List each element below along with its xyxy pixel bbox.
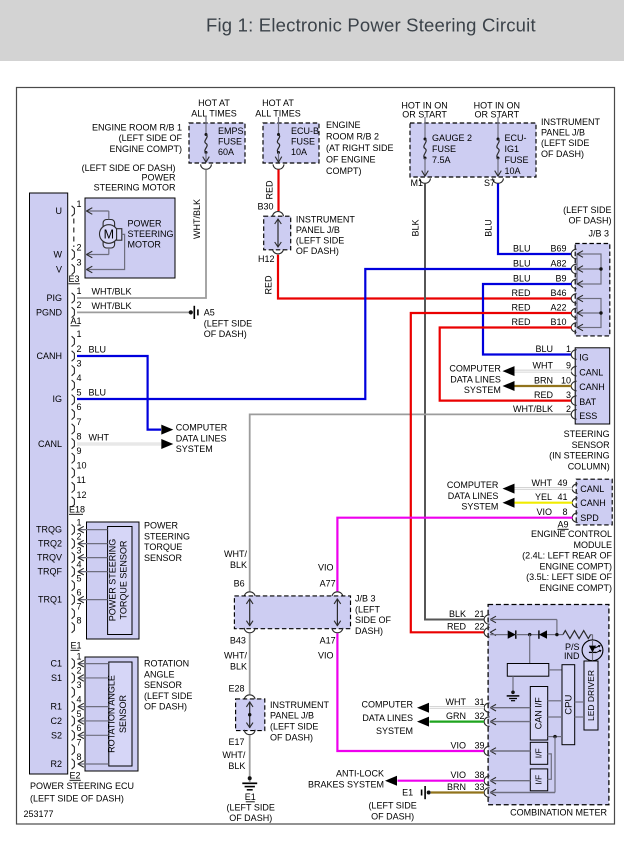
svg-text:BAT: BAT: [579, 397, 596, 407]
svg-text:FUSE: FUSE: [505, 155, 529, 165]
svg-text:BLK: BLK: [449, 609, 466, 619]
wire WHT/BLK B43 to E28: [249, 633, 251, 694]
svg-text:WHT: WHT: [89, 433, 110, 443]
svg-text:COMPT): COMPT): [326, 166, 362, 176]
rotation sensor wires to ECU: [78, 663, 109, 665]
svg-text:OF DASH): OF DASH): [229, 813, 272, 823]
fuse GAUGE 2 7.5A: [424, 117, 426, 139]
svg-text:CANH: CANH: [36, 351, 62, 361]
engine control module block: [576, 479, 612, 525]
svg-text:TRQV: TRQV: [37, 553, 62, 563]
P/S IND LED indicator: [582, 640, 603, 661]
svg-text:E2: E2: [70, 771, 81, 781]
svg-text:9: 9: [77, 446, 82, 456]
svg-text:I/F: I/F: [534, 748, 544, 758]
svg-text:SENSOR: SENSOR: [144, 553, 183, 563]
svg-text:CANL: CANL: [580, 484, 604, 494]
svg-text:B9: B9: [555, 273, 566, 283]
svg-text:RED: RED: [511, 317, 531, 327]
svg-text:2: 2: [77, 531, 82, 541]
wire WHT/BLK from EMPS fuse to ECU PIG pin 1: [77, 170, 206, 299]
svg-text:VIO: VIO: [536, 507, 552, 517]
svg-text:10: 10: [77, 461, 87, 471]
svg-text:R2: R2: [50, 759, 62, 769]
torque sensor wires to ECU: [78, 529, 108, 531]
steering sensor block: [575, 348, 610, 424]
wire WHT CANL from ECU to computer data lines arrow: [77, 443, 161, 446]
svg-text:S2: S2: [51, 730, 62, 740]
computer data lines system arrows (left): [161, 425, 173, 435]
svg-text:OF DASH): OF DASH): [568, 216, 611, 226]
svg-text:E18: E18: [69, 505, 85, 515]
svg-text:E1: E1: [71, 641, 82, 651]
svg-text:IG: IG: [52, 394, 62, 404]
svg-text:RED: RED: [265, 180, 275, 200]
J/B3 internal bus bar 2: [577, 299, 601, 328]
rotation angle sensor block: [85, 657, 138, 771]
svg-text:MODULE: MODULE: [573, 540, 612, 550]
meter internal wire pin38: [490, 780, 530, 782]
svg-text:ENGINE COMPT): ENGINE COMPT): [109, 144, 182, 154]
wire VIO from ECM SPD pin 8 to J/B3 A77: [337, 518, 572, 592]
svg-text:(LEFT SIDE: (LEFT SIDE: [368, 800, 416, 810]
svg-text:POWER STEERING ECU: POWER STEERING ECU: [30, 781, 134, 791]
svg-text:GRN: GRN: [446, 711, 466, 721]
fuse ECU-IG1 10A: [497, 117, 499, 139]
svg-text:49: 49: [557, 478, 567, 488]
svg-text:BRN: BRN: [447, 782, 466, 792]
svg-text:60A: 60A: [218, 147, 234, 157]
svg-text:10A: 10A: [505, 166, 521, 176]
svg-text:10A: 10A: [291, 147, 307, 157]
svg-text:INSTRUMENT: INSTRUMENT: [270, 700, 329, 710]
svg-text:(LEFT: (LEFT: [355, 604, 381, 614]
svg-text:TORQUE: TORQUE: [144, 542, 182, 552]
svg-text:ENGINE COMPT): ENGINE COMPT): [539, 561, 612, 571]
svg-text:EMPS: EMPS: [218, 126, 244, 136]
wire WHT ECM CANL pin 49 to computer data lines: [515, 487, 573, 490]
svg-text:WHT/: WHT/: [224, 651, 247, 661]
svg-text:ROTATION ANGLE: ROTATION ANGLE: [107, 675, 117, 753]
svg-text:11: 11: [77, 475, 86, 485]
svg-text:OF DASH): OF DASH): [270, 732, 313, 742]
svg-text:2: 2: [77, 242, 82, 252]
svg-text:7.5A: 7.5A: [432, 155, 451, 165]
power steering motor block: [85, 198, 175, 278]
J/B3 internal bus bar 1: [577, 254, 601, 284]
svg-text:TRQG: TRQG: [36, 525, 62, 535]
svg-text:C1: C1: [50, 659, 62, 669]
svg-text:POWER: POWER: [144, 521, 179, 531]
svg-text:39: 39: [474, 740, 484, 750]
svg-text:(2.4L: LEFT REAR OF: (2.4L: LEFT REAR OF: [522, 551, 612, 561]
svg-text:BLU: BLU: [535, 344, 553, 354]
svg-text:12: 12: [77, 490, 87, 500]
wire WHT/BLK ESS net: steering sensor pin 2 to B6: [250, 414, 572, 591]
svg-text:A17: A17: [320, 636, 336, 646]
wire VIO meter pin38 from anti-lock brakes system: [398, 780, 485, 782]
svg-text:A5: A5: [204, 308, 215, 318]
svg-text:BLK: BLK: [411, 219, 421, 236]
svg-text:(LEFT SIDE OF: (LEFT SIDE OF: [119, 133, 183, 143]
wire BLU from J/B3 B9 to steering sensor IG pin 1: [483, 284, 572, 355]
svg-text:PIG: PIG: [46, 293, 62, 303]
CPU box: [562, 665, 575, 745]
svg-text:5: 5: [77, 709, 82, 719]
svg-text:BLU: BLU: [484, 219, 494, 237]
svg-text:STEERING MOTOR: STEERING MOTOR: [94, 183, 176, 193]
svg-text:1: 1: [566, 344, 571, 354]
combination meter block: [488, 605, 609, 805]
svg-text:I/F: I/F: [534, 775, 544, 785]
svg-text:B69: B69: [550, 243, 566, 253]
svg-text:(LEFT SIDE: (LEFT SIDE: [270, 722, 318, 732]
svg-text:ANTI-LOCK: ANTI-LOCK: [336, 769, 384, 779]
computer data lines system arrows (ECM): [503, 484, 515, 494]
resistor to P/S IND: [563, 631, 591, 639]
svg-text:FUSE: FUSE: [218, 137, 242, 147]
svg-text:1: 1: [77, 286, 82, 296]
svg-text:SYSTEM: SYSTEM: [176, 444, 213, 454]
svg-text:ANGLE: ANGLE: [144, 669, 175, 679]
svg-text:BLU: BLU: [513, 243, 531, 253]
fuse box engine room R/B 1 (EMPS): [189, 123, 245, 163]
diode D1: [508, 630, 516, 638]
svg-text:ENGINE: ENGINE: [326, 120, 361, 130]
svg-text:TORQUE SENSOR: TORQUE SENSOR: [119, 540, 129, 619]
fuse box instrument panel J/B: [410, 123, 536, 177]
computer data lines system arrows (steering sensor): [503, 366, 515, 376]
svg-text:POWER: POWER: [128, 219, 163, 229]
svg-text:WHT/: WHT/: [224, 549, 247, 559]
meter internal ground: [512, 676, 514, 691]
wire BLU IG from ECU pin 5 to J/B3 A82: [77, 269, 572, 399]
wire BLU CANH from ECU to computer data lines arrow: [77, 356, 161, 430]
svg-text:B43: B43: [230, 636, 246, 646]
svg-text:DASH): DASH): [355, 626, 383, 636]
svg-text:MOTOR: MOTOR: [128, 240, 162, 250]
CAN I/F bottom wire with junction to pin33: [548, 736, 562, 738]
wire GRN meter pin32 to computer data lines: [430, 720, 485, 722]
svg-text:7: 7: [77, 601, 82, 611]
svg-text:SENSOR: SENSOR: [572, 440, 611, 450]
connector arc below EMPS fuse: [201, 164, 212, 169]
meter internal wire pin39: [490, 750, 530, 752]
svg-text:WHT: WHT: [532, 478, 553, 488]
title banner: [0, 0, 624, 61]
junction block J/B 3 lower (B6-B43, A77-A17): [244, 592, 255, 597]
svg-text:W: W: [54, 250, 63, 260]
svg-text:J/B 3: J/B 3: [588, 229, 609, 239]
meter internal wire pin32: [490, 721, 530, 723]
svg-text:7: 7: [77, 417, 82, 427]
svg-text:IG1: IG1: [505, 144, 520, 154]
svg-text:OR START: OR START: [474, 110, 519, 120]
svg-text:21: 21: [474, 609, 484, 619]
svg-text:WHT/BLK: WHT/BLK: [92, 287, 132, 297]
svg-text:253177: 253177: [24, 809, 54, 819]
svg-text:3: 3: [77, 257, 82, 267]
svg-text:E28: E28: [228, 684, 244, 694]
power steering torque sensor block: [87, 522, 140, 639]
svg-text:(LEFT SIDE OF DASH): (LEFT SIDE OF DASH): [82, 163, 176, 173]
svg-text:Fig 1: Electronic Power Steeri: Fig 1: Electronic Power Steering Circuit: [206, 15, 536, 36]
computer data lines system arrows (meter): [417, 703, 429, 713]
svg-text:A82: A82: [550, 258, 566, 268]
wire BRN CANH sensor pin 10 to computer data lines: [515, 385, 572, 387]
wire motor pin1 U: [86, 210, 109, 212]
chassis ground E1: [248, 776, 252, 780]
svg-text:ECU-B: ECU-B: [291, 126, 319, 136]
svg-text:E3: E3: [69, 274, 80, 284]
ECU torque-sensor connector pins 1-8 (TRQG,TRQ2,TRQV,TRQF,TRQ1): [72, 524, 75, 534]
svg-text:POWER STEERING: POWER STEERING: [108, 539, 118, 622]
svg-text:(3.5L: LEFT SIDE OF: (3.5L: LEFT SIDE OF: [526, 572, 612, 582]
regulator box: [529, 635, 531, 664]
svg-text:BLU: BLU: [89, 345, 107, 355]
svg-text:BLK: BLK: [230, 560, 247, 570]
wire RED from J/B3 A22 to combination meter pin 22: [411, 313, 572, 632]
svg-text:WHT/BLK: WHT/BLK: [192, 199, 202, 239]
svg-text:41: 41: [557, 492, 567, 502]
svg-text:COMPUTER: COMPUTER: [176, 423, 228, 433]
svg-text:STEERING: STEERING: [144, 531, 190, 541]
I/F box 2: [530, 769, 547, 791]
svg-text:STEERING: STEERING: [128, 229, 174, 239]
body ground E1 symbol at meter: [427, 791, 431, 795]
svg-text:DATA LINES: DATA LINES: [450, 374, 501, 384]
svg-text:COMPUTER: COMPUTER: [447, 480, 499, 490]
svg-text:CANH: CANH: [580, 498, 606, 508]
svg-text:OF ENGINE: OF ENGINE: [326, 155, 376, 165]
wire WHT CANL sensor pin 9 to computer data lines: [515, 370, 572, 373]
ECU rotation-sensor connector pins 1-8 (C1,S1,R1,C2,S2,R2): [72, 658, 75, 668]
svg-text:(AT RIGHT SIDE: (AT RIGHT SIDE: [326, 143, 394, 153]
svg-text:BRN: BRN: [534, 375, 553, 385]
svg-text:WHT: WHT: [446, 697, 467, 707]
LED DRIVER box: [584, 661, 598, 730]
svg-text:WHT/: WHT/: [222, 750, 245, 760]
svg-text:SENSOR: SENSOR: [118, 694, 128, 733]
svg-text:RED: RED: [534, 390, 554, 400]
svg-text:(LEFT SIDE: (LEFT SIDE: [541, 138, 589, 148]
svg-text:ROTATION: ROTATION: [144, 659, 189, 669]
svg-text:6: 6: [77, 723, 82, 733]
svg-text:B30: B30: [257, 202, 273, 212]
wire motor pin3 V: [86, 234, 125, 269]
svg-text:7: 7: [77, 737, 82, 747]
connector arc S7: [493, 178, 504, 183]
svg-text:4: 4: [77, 559, 82, 569]
svg-text:SPD: SPD: [580, 513, 599, 523]
svg-text:VIO: VIO: [450, 740, 466, 750]
wire RED from H12 to J/B3 B46: [278, 255, 572, 299]
svg-text:8: 8: [562, 507, 567, 517]
svg-text:DATA LINES: DATA LINES: [362, 713, 413, 723]
svg-text:33: 33: [474, 782, 484, 792]
svg-text:WHT: WHT: [533, 361, 554, 371]
svg-text:CANL: CANL: [38, 439, 62, 449]
svg-text:VIO: VIO: [318, 563, 334, 573]
svg-text:J/B 3: J/B 3: [355, 594, 376, 604]
dashed link E3 pin1-pin2: [73, 219, 75, 248]
svg-text:BRAKES SYSTEM: BRAKES SYSTEM: [308, 779, 384, 789]
svg-text:4: 4: [77, 694, 82, 704]
svg-text:U: U: [56, 206, 63, 216]
wire BLK from GAUGE 2 fuse M1 to combination meter pin 21: [425, 184, 484, 620]
svg-text:ENGINE ROOM R/B 1: ENGINE ROOM R/B 1: [92, 123, 182, 133]
svg-text:22: 22: [474, 622, 484, 632]
svg-text:SENSOR: SENSOR: [144, 680, 183, 690]
svg-text:B46: B46: [550, 288, 566, 298]
wire WHT meter pin31 to computer data lines: [430, 706, 485, 709]
svg-text:(LEFT SIDE: (LEFT SIDE: [204, 319, 252, 329]
svg-text:ROOM R/B 2: ROOM R/B 2: [326, 132, 379, 142]
svg-text:ESS: ESS: [579, 411, 597, 421]
svg-text:YEL: YEL: [535, 492, 552, 502]
svg-text:2: 2: [566, 404, 571, 414]
svg-text:(IN STEERING: (IN STEERING: [549, 451, 610, 461]
svg-text:PGND: PGND: [36, 308, 63, 318]
svg-text:HOT AT: HOT AT: [262, 98, 294, 108]
I/F box 1: [530, 742, 547, 764]
svg-text:8: 8: [77, 752, 82, 762]
regulator to CPU wire: [549, 669, 562, 671]
svg-text:H12: H12: [258, 254, 275, 264]
svg-text:BLU: BLU: [89, 388, 107, 398]
svg-text:DATA LINES: DATA LINES: [176, 433, 227, 443]
svg-text:PANEL J/B: PANEL J/B: [296, 225, 340, 235]
svg-text:OF DASH): OF DASH): [541, 149, 584, 159]
CAN I/F box: [530, 687, 547, 741]
svg-text:3: 3: [77, 545, 82, 555]
svg-text:RED: RED: [264, 275, 274, 295]
svg-text:RED: RED: [447, 622, 467, 632]
wire YEL ECM CANH pin 41 to computer data lines: [515, 502, 573, 504]
svg-text:10: 10: [561, 375, 571, 385]
CAN I/F to CPU wires: [548, 700, 562, 702]
wire BLU from ECU-IG1 fuse S7 to J/B3 B69: [498, 184, 572, 255]
svg-text:S7: S7: [484, 178, 495, 188]
svg-text:RED: RED: [511, 288, 531, 298]
svg-text:INSTRUMENT: INSTRUMENT: [541, 117, 600, 127]
svg-text:STEERING: STEERING: [564, 429, 610, 439]
power steering ECU block: [30, 193, 68, 774]
svg-text:E1: E1: [245, 792, 256, 802]
svg-text:IG: IG: [579, 353, 589, 363]
svg-text:2: 2: [77, 666, 82, 676]
svg-text:CANL: CANL: [579, 368, 603, 378]
wire motor pin2 W: [86, 254, 109, 256]
wire BRN meter pin33 from body ground E1: [431, 791, 484, 793]
wire RED from ECU-B fuse to B30: [277, 170, 279, 212]
ECU connector E3 pins 1-3 (U,W,V): [72, 206, 75, 216]
svg-text:(LEFT SIDE OF DASH): (LEFT SIDE OF DASH): [30, 794, 124, 804]
svg-text:A22: A22: [550, 302, 566, 312]
meter internal wire pin21: [490, 619, 557, 621]
svg-text:5: 5: [77, 388, 82, 398]
svg-text:ECU-: ECU-: [505, 133, 527, 143]
svg-text:OF DASH): OF DASH): [144, 702, 187, 712]
svg-text:FUSE: FUSE: [291, 137, 315, 147]
svg-text:A77: A77: [320, 579, 336, 589]
svg-text:TRQ2: TRQ2: [38, 539, 62, 549]
svg-text:C2: C2: [50, 716, 62, 726]
svg-text:DATA LINES: DATA LINES: [448, 491, 499, 501]
svg-text:VIO: VIO: [450, 770, 466, 780]
diode D2: [538, 630, 540, 638]
wire WHT/BLK E17 to ground E1: [249, 735, 251, 782]
svg-text:TRQF: TRQF: [38, 567, 63, 577]
svg-text:SYSTEM: SYSTEM: [376, 726, 413, 736]
svg-text:8: 8: [77, 615, 82, 625]
svg-text:3: 3: [77, 680, 82, 690]
svg-text:R1: R1: [50, 702, 62, 712]
wire WHT/BLK from ECU PGND pin 2 to body ground A5: [77, 311, 190, 313]
svg-text:3: 3: [77, 358, 82, 368]
svg-text:PANEL J/B: PANEL J/B: [541, 128, 585, 138]
connector arc below ECU-B fuse: [273, 164, 284, 169]
svg-text:PANEL J/B: PANEL J/B: [270, 711, 314, 721]
fuse EMPS 60A: [205, 117, 207, 135]
svg-text:POWER: POWER: [141, 173, 176, 183]
svg-text:3: 3: [566, 390, 571, 400]
svg-text:31: 31: [474, 697, 484, 707]
svg-text:BLK: BLK: [228, 761, 245, 771]
ECU connector E18 pins 1-12 (CANH,IG,CANL): [72, 336, 75, 346]
svg-text:2: 2: [77, 344, 82, 354]
svg-text:6: 6: [77, 587, 82, 597]
svg-text:GAUGE 2: GAUGE 2: [432, 133, 472, 143]
junction block J/B 3 (B69..B10): [575, 244, 610, 336]
svg-text:1: 1: [77, 517, 82, 527]
svg-text:S1: S1: [51, 673, 62, 683]
anti-lock brakes system arrow: [385, 776, 397, 786]
svg-text:E1: E1: [402, 788, 413, 798]
svg-text:9: 9: [566, 361, 571, 371]
svg-text:B10: B10: [550, 317, 566, 327]
svg-text:COMBINATION METER: COMBINATION METER: [510, 808, 607, 818]
fuse ECU-B 10A: [278, 117, 280, 135]
svg-text:(LEFT SIDE: (LEFT SIDE: [563, 205, 611, 215]
svg-text:(LEFT SIDE: (LEFT SIDE: [144, 691, 192, 701]
svg-text:OF DASH): OF DASH): [371, 812, 414, 822]
svg-text:V: V: [56, 265, 62, 275]
svg-text:B6: B6: [234, 579, 245, 589]
CPU to LED driver wires: [575, 701, 584, 703]
svg-text:1: 1: [77, 329, 82, 339]
svg-text:E17: E17: [228, 737, 244, 747]
svg-text:ALL TIMES: ALL TIMES: [191, 109, 237, 119]
svg-text:32: 32: [474, 711, 484, 721]
motor M1 symbol: [103, 220, 115, 249]
svg-text:CANH: CANH: [579, 382, 605, 392]
svg-text:HOT AT: HOT AT: [198, 98, 230, 108]
svg-text:(LEFT SIDE: (LEFT SIDE: [227, 803, 275, 813]
svg-text:M: M: [104, 227, 114, 241]
svg-text:COLUMN): COLUMN): [568, 461, 610, 471]
meter internal wire pin31: [490, 707, 530, 709]
svg-text:5: 5: [77, 573, 82, 583]
svg-text:2: 2: [77, 300, 82, 310]
svg-text:CPU: CPU: [564, 695, 575, 715]
svg-text:BLU: BLU: [513, 258, 531, 268]
svg-text:8: 8: [77, 431, 82, 441]
svg-text:4: 4: [77, 373, 82, 383]
svg-text:OF DASH): OF DASH): [296, 246, 339, 256]
svg-text:WHT/BLK: WHT/BLK: [92, 301, 132, 311]
ECU connector A1 pins 1-2 (PIG,PGND): [72, 293, 75, 303]
